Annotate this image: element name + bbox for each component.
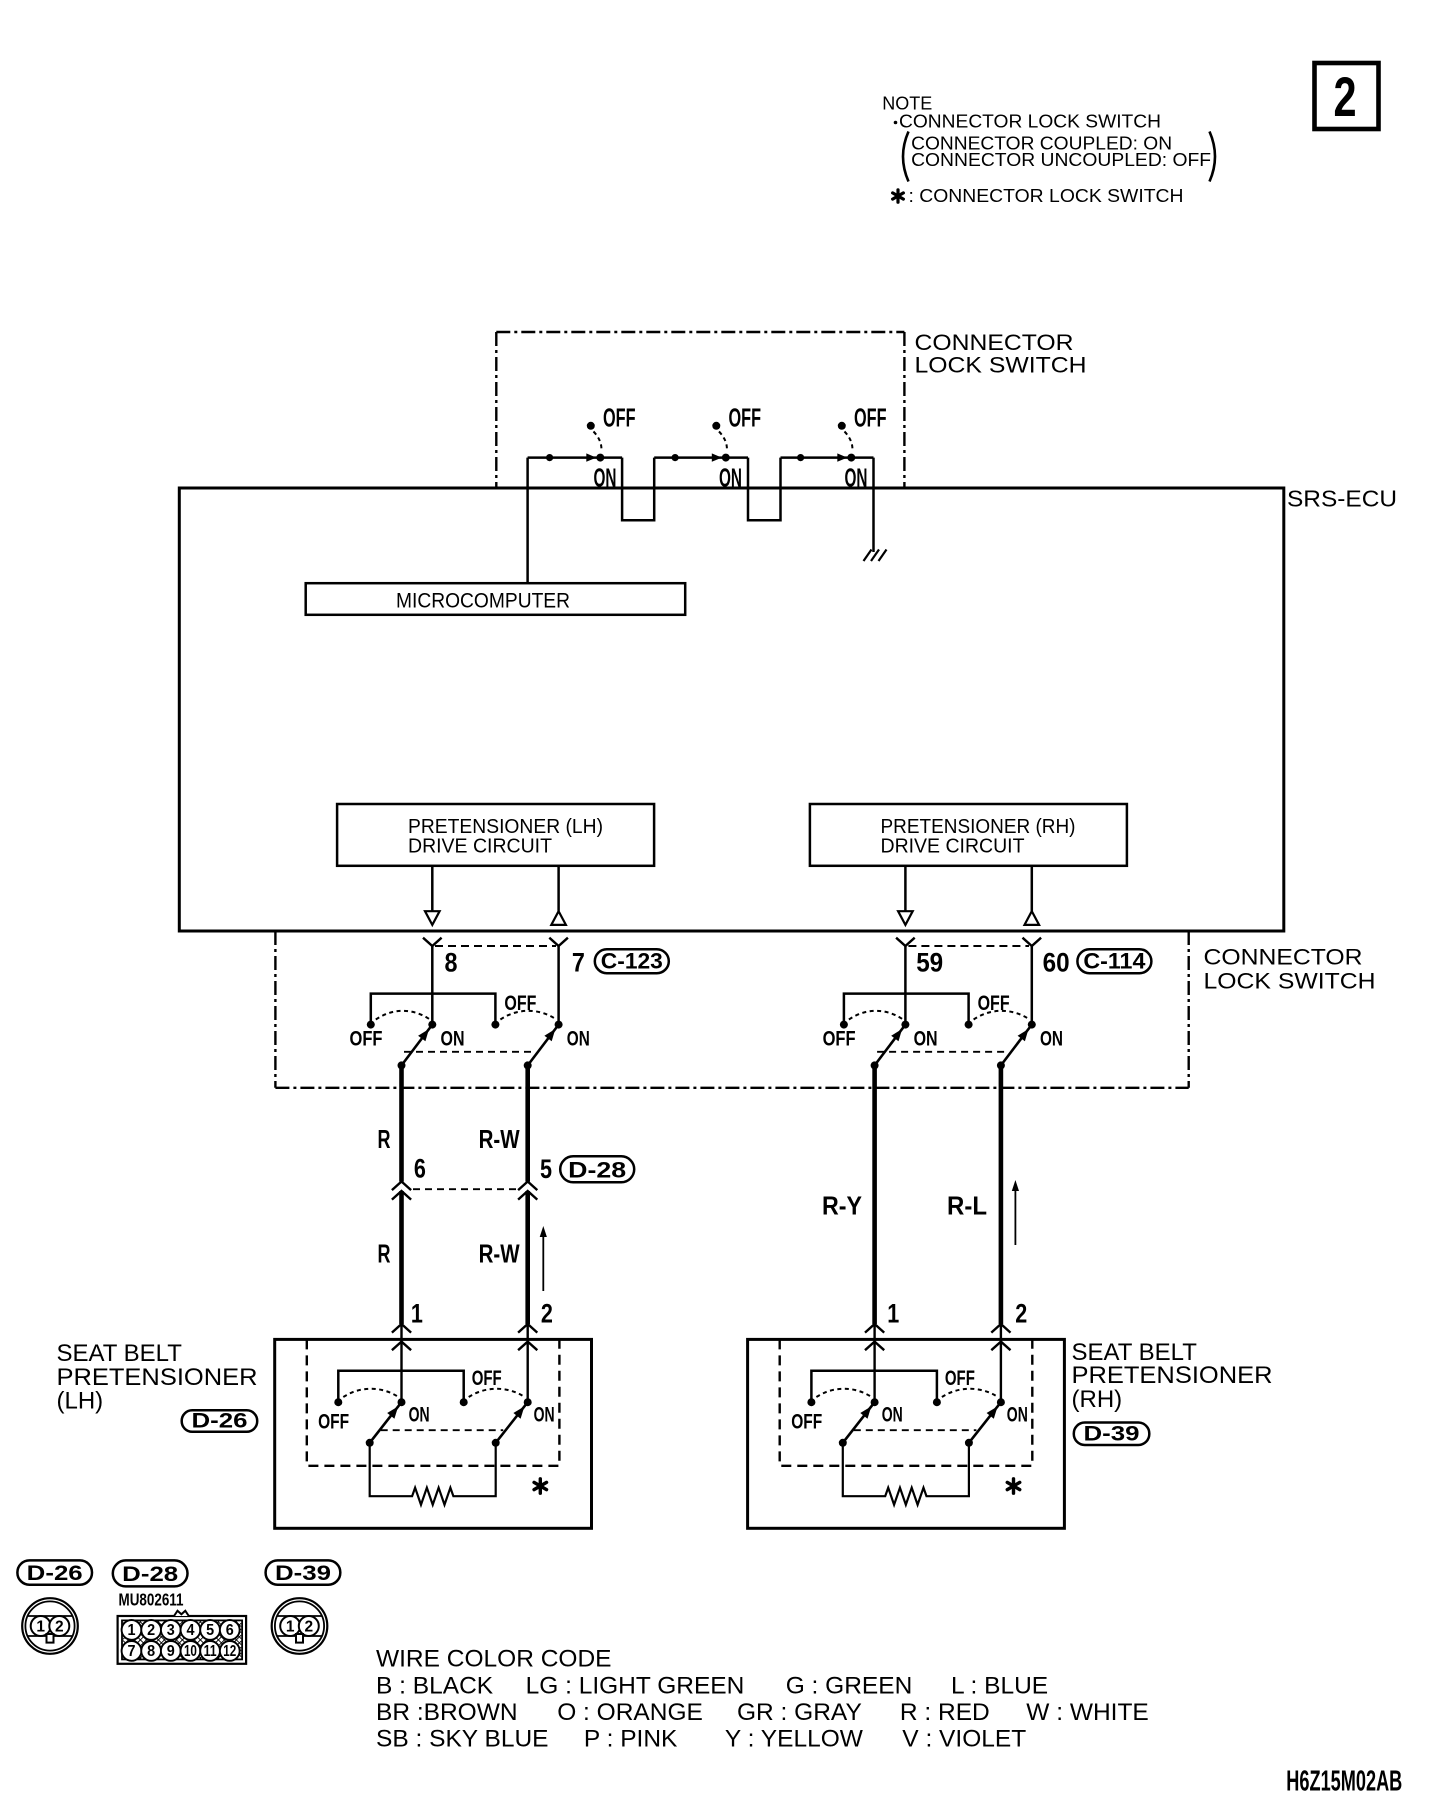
svg-text:C-123: C-123 [601, 949, 663, 974]
note asterisk legend [893, 186, 1184, 206]
connector pin chevrons (pretensioner entry) [991, 1324, 1010, 1350]
svg-text:MU802611: MU802611 [119, 1590, 184, 1610]
connector lock switch S1 [546, 405, 636, 493]
svg-text:DRIVE CIRCUIT: DRIVE CIRCUIT [408, 835, 552, 858]
squib resistor (pretensioner LH) [370, 1443, 496, 1505]
svg-text:PRETENSIONER: PRETENSIONER [1072, 1362, 1273, 1389]
switch SW-La ON contact [428, 1021, 436, 1029]
svg-text:OFF: OFF [854, 405, 887, 433]
switch arm a [839, 1402, 875, 1447]
current flow arrow (RH) [1012, 1180, 1019, 1245]
switch bracket SW-R [844, 994, 969, 1021]
OFF contact b [933, 1398, 941, 1406]
switch SW-Rb throw arc [974, 1011, 1029, 1020]
svg-text:B : BLACK: B : BLACK [376, 1673, 494, 1700]
svg-text:OFF: OFF [791, 1411, 822, 1434]
open arrow up (return input) [551, 911, 566, 925]
svg-text:R-Y: R-Y [822, 1191, 862, 1221]
connector pin chevron [423, 938, 442, 946]
SRS-ECU box [179, 488, 1284, 931]
wire ECU output [1031, 866, 1034, 911]
switch SW-L gang link [404, 1051, 534, 1053]
switch bracket (pretensioner LH) [338, 1371, 463, 1399]
pretensioner LH connector-lock dashed box [307, 1339, 560, 1465]
connector pin chevron [896, 938, 915, 946]
svg-text:D-26: D-26 [192, 1410, 248, 1433]
inline connector D-28 chevrons (pin 6) [392, 1182, 537, 1200]
gang link [381, 1429, 504, 1431]
squib resistor (pretensioner RH) [843, 1443, 969, 1505]
connector D-28 dashed link [413, 1188, 516, 1190]
connector D-28 keying notch [174, 1611, 189, 1616]
svg-text:R-W: R-W [479, 1124, 520, 1154]
note text [882, 94, 1211, 171]
asterisk mark [1012, 1479, 1015, 1493]
svg-text:1: 1 [128, 1622, 136, 1639]
switch SW-La arm [398, 1025, 433, 1070]
sheet number box 2 [1315, 63, 1379, 129]
switch SW-Ra ON contact [901, 1021, 909, 1029]
connector lock switch enclosure (top) [496, 332, 904, 488]
switch SW-Lb throw arc [500, 1011, 555, 1020]
switch arm b [965, 1402, 1001, 1447]
wire to ground [872, 458, 875, 552]
svg-text:SRS-ECU: SRS-ECU [1287, 486, 1397, 512]
svg-text:8: 8 [147, 1643, 155, 1660]
wire [1031, 946, 1034, 1025]
switch SW-La throw arc [376, 1011, 430, 1020]
connector D-28 face view (12-pin) [118, 1611, 247, 1664]
svg-text:12: 12 [223, 1643, 236, 1660]
connector lock switch enclosure (lower) [275, 931, 1188, 1088]
switch SW-La OFF contact [367, 1021, 375, 1029]
connector designator C-114 [1077, 949, 1151, 974]
connector pin chevron [1023, 938, 1042, 946]
svg-text:BR :BROWN: BR :BROWN [376, 1699, 518, 1726]
svg-text:3: 3 [167, 1622, 175, 1639]
svg-text:6: 6 [226, 1622, 234, 1639]
svg-text:G : GREEN: G : GREEN [786, 1673, 913, 1700]
svg-text:LOCK SWITCH: LOCK SWITCH [915, 353, 1087, 378]
switch SW-Lb ON contact [555, 1021, 563, 1029]
switch arm a [366, 1402, 402, 1447]
svg-text:D-28: D-28 [568, 1158, 626, 1183]
current flow arrow (LH) [540, 1226, 547, 1291]
switch arm b [492, 1402, 528, 1447]
svg-text:LOCK SWITCH: LOCK SWITCH [1204, 969, 1376, 994]
svg-text:8: 8 [445, 948, 458, 978]
connector D-26 face view (2-pin round) [22, 1598, 78, 1654]
svg-text:DRIVE CIRCUIT: DRIVE CIRCUIT [881, 835, 1025, 858]
wire [904, 946, 907, 1025]
wire [557, 946, 560, 1025]
connector lock switch S3 [797, 405, 887, 493]
svg-text:2: 2 [55, 1619, 64, 1636]
svg-text:: CONNECTOR LOCK SWITCH: : CONNECTOR LOCK SWITCH [909, 186, 1184, 206]
svg-text:ON: ON [719, 465, 742, 493]
svg-text:GR : GRAY: GR : GRAY [737, 1699, 862, 1726]
svg-text:ON: ON [409, 1404, 430, 1427]
svg-text:SB : SKY BLUE: SB : SKY BLUE [376, 1726, 549, 1753]
svg-text:1: 1 [286, 1619, 295, 1636]
wire [873, 1324, 875, 1402]
wire R (D-28 pin 6 to pretensioner LH pin 1) [399, 1191, 404, 1324]
wire ECU output [557, 866, 560, 911]
switch SW-Ra throw arc [849, 1011, 903, 1020]
svg-text:C-114: C-114 [1083, 949, 1146, 974]
throw arc a [343, 1389, 398, 1397]
wire from switch chain to microcomputer [526, 458, 529, 584]
svg-text:OFF: OFF [729, 405, 762, 433]
switch bracket (pretensioner RH) [811, 1371, 937, 1399]
svg-text:4: 4 [186, 1622, 194, 1639]
ON contact a [871, 1398, 879, 1406]
svg-text:R-W: R-W [479, 1239, 520, 1269]
svg-text:MICROCOMPUTER: MICROCOMPUTER [396, 589, 570, 613]
wire R (pin 8 to D-28 pin 6) [399, 1065, 404, 1181]
svg-text:ON: ON [1007, 1404, 1028, 1427]
label SEAT BELT PRETENSIONER (LH) [57, 1340, 258, 1415]
svg-text:CONNECTOR: CONNECTOR [1204, 945, 1363, 970]
svg-text:OFF: OFF [978, 992, 1010, 1015]
throw arc a [816, 1389, 871, 1397]
svg-text:7: 7 [128, 1643, 136, 1660]
throw arc b [942, 1389, 998, 1397]
ON contact b [997, 1398, 1005, 1406]
svg-text:W : WHITE: W : WHITE [1026, 1699, 1148, 1726]
label CONNECTOR LOCK SWITCH (lower) [1204, 945, 1376, 994]
svg-text:LG : LIGHT GREEN: LG : LIGHT GREEN [526, 1673, 745, 1700]
connector designator D-28 (view) [113, 1560, 188, 1586]
svg-text:5: 5 [206, 1622, 214, 1639]
svg-text:P : PINK: P : PINK [584, 1726, 678, 1753]
svg-text:ON: ON [1040, 1027, 1063, 1050]
svg-text:2: 2 [304, 1619, 313, 1636]
svg-text:1: 1 [887, 1299, 899, 1329]
connector pin chevrons (pretensioner entry) [865, 1324, 884, 1350]
svg-text:ON: ON [567, 1027, 590, 1050]
svg-text:V : VIOLET: V : VIOLET [902, 1726, 1026, 1753]
connector D-39 face view (2-pin round) [272, 1598, 328, 1654]
svg-text:OFF: OFF [945, 1367, 975, 1390]
wire R-Y (pin 59 to pretensioner RH pin 1) [872, 1065, 877, 1324]
svg-text:D-39: D-39 [1084, 1423, 1140, 1446]
svg-text:60: 60 [1043, 948, 1070, 978]
wire [527, 1324, 529, 1402]
connector designator C-123 [595, 949, 669, 974]
svg-text:OFF: OFF [603, 405, 636, 433]
svg-text:R-L: R-L [947, 1191, 987, 1221]
wire [400, 1324, 402, 1402]
svg-text:R: R [378, 1124, 391, 1154]
ground [864, 550, 887, 562]
svg-text:2: 2 [147, 1622, 155, 1639]
seat belt pretensioner RH box [748, 1339, 1065, 1528]
connector designator D-39 (view) [266, 1560, 341, 1585]
wire switch chain segment 1 [528, 456, 623, 459]
svg-text:(RH): (RH) [1072, 1386, 1123, 1413]
gang link [854, 1429, 977, 1431]
connector designator D-39 (at RH) [1074, 1423, 1150, 1446]
pretensioner RH connector-lock dashed box [780, 1339, 1033, 1465]
wire [1000, 1324, 1002, 1402]
svg-text:H6Z15M02AB: H6Z15M02AB [1286, 1765, 1402, 1797]
connector designator D-26 (view) [17, 1560, 92, 1585]
OFF contact a [807, 1398, 815, 1406]
wire dip 1 [622, 458, 654, 521]
svg-text:OFF: OFF [350, 1028, 383, 1051]
connector pin chevrons (pretensioner entry) [518, 1324, 537, 1350]
open arrow down (drive output) [425, 911, 440, 925]
open arrow up (return input) [1025, 911, 1040, 925]
wire [431, 946, 434, 1025]
switch SW-Ra OFF contact [840, 1021, 848, 1029]
svg-text:CONNECTOR: CONNECTOR [915, 330, 1074, 355]
svg-text:CONNECTOR LOCK SWITCH: CONNECTOR LOCK SWITCH [899, 112, 1161, 132]
switch SW-Ra arm [871, 1025, 906, 1070]
seat belt pretensioner LH box [275, 1339, 592, 1528]
microcomputer box [306, 583, 686, 615]
note right parenthesis [1210, 132, 1216, 182]
throw arc b [469, 1389, 525, 1397]
svg-text:D-39: D-39 [275, 1562, 331, 1585]
OFF contact b [460, 1398, 468, 1406]
svg-text:Y : YELLOW: Y : YELLOW [725, 1726, 864, 1753]
svg-text:(LH): (LH) [57, 1388, 104, 1415]
svg-text:2: 2 [1015, 1299, 1027, 1329]
svg-text:OFF: OFF [504, 992, 536, 1015]
switch SW-Lb OFF contact [491, 1021, 499, 1029]
connector pin chevron [549, 938, 568, 946]
svg-text:D-26: D-26 [27, 1562, 83, 1585]
wire R-W (pin 7 to D-28 pin 5) [525, 1065, 530, 1181]
svg-text:ON: ON [441, 1027, 465, 1050]
svg-text:ON: ON [534, 1404, 555, 1427]
connector lock switch S2 [672, 405, 762, 493]
svg-text:2: 2 [541, 1299, 553, 1329]
OFF contact a [334, 1398, 342, 1406]
connector C-114 dashed link [908, 945, 1029, 947]
open arrow down (drive output) [898, 911, 913, 925]
switch bracket SW-L [371, 994, 496, 1021]
svg-text:1: 1 [36, 1619, 45, 1636]
wire R-W (D-28 pin 5 to pretensioner LH pin 2) [525, 1191, 530, 1324]
switch SW-Rb ON contact [1028, 1021, 1036, 1029]
label SEAT BELT PRETENSIONER (RH) [1072, 1339, 1273, 1413]
svg-text:9: 9 [167, 1643, 175, 1660]
svg-text:ON: ON [882, 1404, 903, 1427]
svg-text:OFF: OFF [823, 1028, 856, 1051]
wire switch chain segment 2 [654, 456, 748, 459]
svg-text:1: 1 [411, 1299, 423, 1329]
label CONNECTOR LOCK SWITCH (top) [915, 330, 1087, 378]
svg-text:O : ORANGE: O : ORANGE [557, 1699, 703, 1726]
wire ECU output [904, 866, 907, 911]
svg-text:R: R [378, 1239, 391, 1269]
svg-text:WIRE COLOR CODE: WIRE COLOR CODE [376, 1646, 612, 1673]
note left parenthesis [903, 132, 909, 182]
svg-text:59: 59 [916, 948, 943, 978]
pretensioner RH drive circuit box [810, 804, 1127, 866]
svg-text:ON: ON [594, 465, 617, 493]
svg-text:D-28: D-28 [122, 1563, 178, 1586]
svg-text:ON: ON [845, 465, 868, 493]
connector designator D-26 (at LH) [182, 1410, 258, 1433]
wire color code legend [376, 1646, 1149, 1753]
svg-text:L : BLUE: L : BLUE [951, 1673, 1048, 1700]
connector C-123 dashed link [435, 945, 556, 947]
svg-text:11: 11 [204, 1643, 217, 1660]
svg-text:7: 7 [572, 948, 585, 978]
switch SW-Rb arm [997, 1025, 1032, 1070]
pretensioner LH drive circuit box [337, 804, 654, 866]
wire switch chain segment 3 [781, 456, 874, 459]
connector pin chevrons (pretensioner entry) [392, 1324, 411, 1350]
svg-text:CONNECTOR UNCOUPLED: OFF: CONNECTOR UNCOUPLED: OFF [911, 150, 1211, 170]
ON contact a [398, 1398, 406, 1406]
svg-text:ON: ON [914, 1027, 938, 1050]
svg-text:OFF: OFF [472, 1367, 502, 1390]
svg-text:5: 5 [540, 1154, 552, 1184]
asterisk mark [539, 1479, 542, 1493]
svg-text:OFF: OFF [318, 1411, 349, 1434]
ON contact b [524, 1398, 532, 1406]
svg-text:2: 2 [1333, 66, 1356, 129]
connector designator D-28 [560, 1156, 634, 1182]
switch SW-Rb OFF contact [965, 1021, 973, 1029]
svg-text:NOTE: NOTE [882, 94, 932, 114]
switch SW-R gang link [877, 1051, 1007, 1053]
svg-text:6: 6 [414, 1154, 426, 1184]
svg-text:10: 10 [184, 1643, 197, 1660]
wire ECU output [431, 866, 434, 911]
wire R-L (pin 60 to pretensioner RH pin 2) [999, 1065, 1004, 1324]
svg-text:R : RED: R : RED [900, 1699, 990, 1726]
svg-text:SEAT BELT: SEAT BELT [57, 1340, 183, 1367]
switch SW-Lb arm [524, 1025, 559, 1070]
wire dip 2 [748, 458, 781, 521]
